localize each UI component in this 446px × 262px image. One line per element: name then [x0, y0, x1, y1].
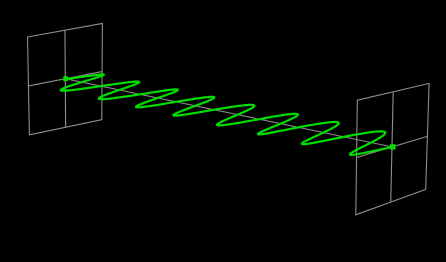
- right center dot: [390, 144, 395, 149]
- left center dot: [63, 76, 68, 81]
- left panel horizontal midline: [28, 72, 102, 86]
- right panel outline: [356, 83, 429, 214]
- right panel horizontal midline: [357, 136, 428, 157]
- left panel outline: [28, 23, 103, 134]
- helix wave (E-field trace): [61, 74, 392, 154]
- right panel vertical midline: [391, 92, 393, 202]
- propagation axis wire: [65, 79, 392, 147]
- left polarizer grid panel: [28, 23, 103, 134]
- right polarizer grid panel: [356, 83, 429, 214]
- left panel vertical midline: [64, 30, 67, 127]
